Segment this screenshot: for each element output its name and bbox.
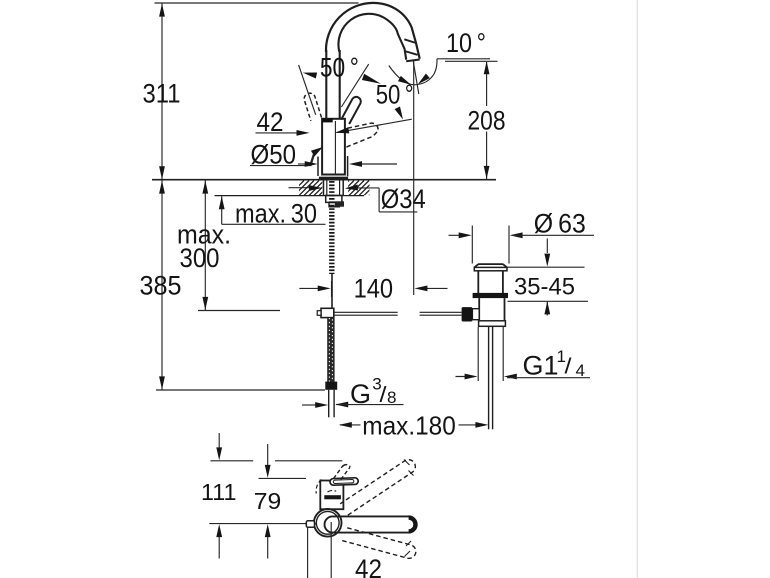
svg-text:311: 311 (143, 79, 181, 109)
threaded stud (329, 181, 334, 274)
mousseur band line 1 (404, 39, 416, 43)
plan spout dashed position (334, 466, 344, 479)
svg-text:10 °: 10 ° (446, 28, 486, 58)
waste body walls (478, 298, 480, 321)
outlet tilted line 10 deg (413, 62, 419, 95)
base flange (319, 177, 348, 180)
plan arrow 111 top (218, 433, 220, 449)
riser tube left edge (325, 50, 327, 119)
G3/8 nipple (328, 390, 330, 418)
plan pop-up knob (306, 521, 314, 528)
dimension 140 left arrow (299, 287, 327, 289)
arrow at base right (353, 163, 397, 165)
spout end face (406, 60, 420, 62)
plan dashed lever up tip hatch (404, 460, 410, 466)
hose fitting block (335, 201, 344, 206)
plan dashed lever up (340, 460, 415, 516)
base cylinder edges (317, 157, 319, 177)
plan dashed lever down tip hatch (405, 551, 411, 557)
plan body rect (320, 481, 343, 510)
svg-text:111: 111 (201, 479, 237, 505)
svg-text:Ø 63: Ø 63 (534, 208, 586, 238)
plan lever bar (325, 516, 417, 532)
dimension max180 left arrow (340, 424, 361, 426)
plan swivel dashed arc (316, 480, 321, 494)
lever handle dashed left position (304, 93, 321, 121)
plan dashed lever down (342, 527, 416, 558)
Ø34 hole left arrow (289, 187, 310, 189)
G1-1/4 arrows (456, 376, 475, 378)
extension line at spout top (311 upper reference) (155, 2, 359, 4)
arc arrow left (50 deg 1) (303, 73, 317, 79)
Ø63 dimension arrows (449, 234, 468, 236)
deck lower line max30 (215, 195, 365, 197)
waste gasket black band (473, 293, 508, 298)
waste cap flange (474, 267, 507, 270)
spout outer contour (326, 3, 420, 59)
svg-text:/: / (565, 354, 573, 379)
rod connector tee (321, 308, 334, 317)
extension line solid lever axis (341, 64, 368, 107)
washer (329, 202, 339, 206)
spout inner contour (338, 14, 406, 60)
plan spout oval (330, 478, 358, 486)
plan reference line 111 top (210, 460, 253, 462)
hose connector (325, 382, 337, 390)
arc arrow right (50 deg 1) (362, 74, 381, 84)
svg-text:35-45: 35-45 (514, 274, 575, 301)
tee stub (317, 311, 321, 316)
35-45 lower arrow (546, 302, 548, 316)
svg-text:385: 385 (140, 271, 182, 301)
svg-text:max. 30: max. 30 (235, 199, 317, 229)
plan arrow 111 bottom (218, 536, 220, 559)
plan base circle outer (314, 509, 342, 537)
pull rod (331, 274, 333, 308)
deck surface line (152, 179, 496, 181)
dimension line 208 (486, 62, 488, 106)
svg-text:79: 79 (254, 488, 282, 514)
svg-text:42: 42 (257, 107, 284, 137)
arc arrow right (10 deg) (418, 74, 430, 85)
svg-text:300: 300 (180, 243, 220, 273)
dimension 140 right arrow (418, 287, 448, 289)
svg-text:G1: G1 (523, 350, 559, 380)
outlet vertical extension line (413, 61, 415, 295)
plan base circle inner (316, 511, 339, 534)
dimension line 385 (deck to hose end) (161, 180, 163, 390)
shank edges (323, 180, 325, 195)
reference line at supply level (198, 310, 280, 312)
riser tube right edge (339, 50, 341, 119)
Ø63 extension line right (508, 226, 510, 264)
lock nut (326, 195, 342, 202)
leader arrow max30 (221, 196, 223, 224)
dimension line max300 (deck to supply level) (204, 180, 206, 311)
reference line waste top flange (506, 266, 585, 268)
underline max30 (222, 223, 326, 225)
arc arrow left (10 deg) (398, 76, 411, 85)
mousseur band line 2 (405, 51, 418, 55)
svg-text:8: 8 (387, 388, 397, 407)
svg-text:140: 140 (354, 273, 394, 303)
svg-text:4: 4 (576, 361, 586, 380)
42 extension line right (330, 522, 332, 578)
plan arrow 79 bottom (267, 536, 269, 559)
leader Ø50 (250, 165, 310, 167)
rod knob black block (462, 307, 473, 321)
arc for 10 deg (389, 59, 437, 85)
faucet body outline (322, 119, 345, 175)
horizontal reference for 10 deg (437, 58, 490, 60)
lever low position line (337, 119, 412, 132)
plan reference line 79 top (259, 477, 307, 479)
rod knob cylinder (472, 309, 479, 320)
arrow at base left (298, 163, 312, 165)
photo edge line (636, 0, 638, 578)
lever handle (solid, raised) (341, 97, 361, 124)
cartridge cap black band (322, 118, 332, 122)
dimension line 311 (spout height above deck) (161, 3, 163, 180)
pop-up rod left segment (334, 311, 398, 313)
Ø63 extension line left (471, 226, 473, 264)
extension line left lever axis (299, 65, 316, 115)
plan body inner dash (328, 490, 337, 492)
plan hinge black band (324, 495, 341, 499)
plan lever bar end cap bold (409, 518, 416, 532)
body inner line (334, 121, 336, 174)
plan arrow 79 top (267, 444, 269, 466)
svg-text:50 °: 50 ° (320, 52, 359, 82)
svg-text:G: G (350, 379, 371, 409)
svg-text:208: 208 (468, 105, 506, 135)
underline G3/8 (340, 404, 404, 406)
pop-up rod right segment (420, 311, 462, 313)
waste plug cap (474, 264, 507, 267)
reference line waste gasket (508, 300, 589, 302)
faucet centerline tick (331, 281, 333, 297)
arrow G3/8 right (336, 404, 349, 406)
arrow G3/8 left (302, 404, 316, 406)
G1-1/4 extension lines (477, 327, 479, 381)
35-45 upper arrow (546, 239, 548, 254)
lever handle dashed right position (345, 123, 378, 147)
svg-text:max.180: max.180 (362, 410, 456, 440)
flexible supply hose (327, 318, 334, 382)
leader Ø34 arrow (345, 185, 358, 191)
waste tailpipe (488, 326, 490, 429)
svg-text:Ø34: Ø34 (381, 184, 426, 214)
waste neck (477, 271, 479, 294)
svg-text:50 °: 50 ° (376, 80, 414, 110)
waste bottom flange (479, 321, 506, 327)
reference line at hose end (156, 389, 325, 391)
dimension max180 right arrow (459, 424, 486, 426)
leader arrow below 50 deg 2 (395, 107, 403, 120)
svg-text:Ø50: Ø50 (251, 140, 297, 170)
42 extension line left (307, 527, 309, 578)
svg-text:42: 42 (355, 554, 382, 578)
plan reference line bottom (209, 523, 306, 525)
leader 42 with arrow (256, 132, 298, 134)
